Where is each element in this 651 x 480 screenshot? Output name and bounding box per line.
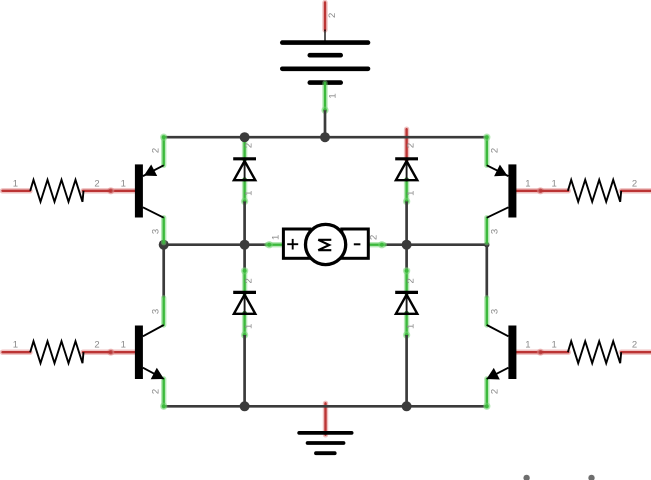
ground symbol (299, 403, 351, 453)
svg-text:3: 3 (489, 229, 500, 234)
wire D4 anode to bottom bus (405, 335, 408, 406)
node top bus / D1 junction (240, 132, 250, 142)
svg-text:1: 1 (525, 340, 530, 351)
diode D2 (upper right flyback) (395, 129, 418, 205)
svg-text:2: 2 (150, 148, 161, 153)
node left mid junction (159, 240, 169, 250)
node right mid junction (small) (484, 242, 489, 247)
wire left mid rail to D3 cathode (243, 245, 246, 271)
resistor R1 (3, 178, 111, 202)
wire bottom bus (163, 405, 489, 408)
battery V1 (282, 3, 368, 114)
diode D3 (lower left flyback) (233, 267, 256, 339)
svg-text:2: 2 (327, 13, 338, 18)
svg-text:2: 2 (150, 389, 161, 394)
transistor Q4 (NPN, bottom-right) (483, 298, 544, 410)
svg-text:2: 2 (94, 178, 99, 189)
svg-text:2: 2 (243, 278, 254, 283)
svg-text:3: 3 (150, 309, 161, 314)
wire right mid rail (381, 243, 487, 246)
svg-text:2: 2 (632, 340, 637, 351)
node top bus / battery junction (320, 132, 330, 142)
wire left mid rail (164, 243, 269, 246)
node bottom bus / D3 junction (240, 401, 250, 411)
diode D4 (lower right flyback) (395, 267, 418, 339)
wire D2 anode to right mid rail (405, 201, 408, 244)
svg-text:2: 2 (405, 143, 416, 148)
svg-text:2: 2 (243, 143, 254, 148)
svg-text:2: 2 (489, 148, 500, 153)
svg-text:1: 1 (328, 93, 339, 98)
transistor Q3 (NPN, bottom-left) (107, 298, 167, 410)
svg-text:1: 1 (243, 324, 254, 329)
svg-text:3: 3 (150, 229, 161, 234)
svg-text:1: 1 (13, 178, 18, 189)
svg-text:1: 1 (121, 178, 126, 189)
svg-text:1: 1 (243, 191, 254, 196)
wire battery pin1 to top bus (324, 110, 327, 137)
resistor R3 (3, 340, 111, 364)
svg-text:1: 1 (525, 178, 530, 189)
svg-text:1: 1 (552, 178, 557, 189)
node right mid rail / D4 junction (402, 240, 412, 250)
svg-text:1: 1 (552, 340, 557, 351)
svg-text:2: 2 (405, 278, 416, 283)
motor M1 (266, 224, 386, 264)
svg-text:2: 2 (489, 389, 500, 394)
wire Q1/Q3 collector column (162, 245, 165, 298)
transistor Q2 (PNP, top-right) (483, 134, 544, 243)
svg-text:2: 2 (632, 178, 637, 189)
resistor R2 (540, 178, 651, 202)
wire Q2/Q4 collector column (485, 245, 488, 298)
svg-text:2: 2 (369, 235, 380, 240)
svg-text:1: 1 (271, 235, 282, 240)
svg-text:1: 1 (121, 340, 126, 351)
node left mid rail / D3 junction (240, 240, 250, 250)
wire top bus (163, 136, 489, 139)
wire D3 anode to bottom bus (243, 335, 246, 406)
diode D1 (upper left flyback) (233, 137, 256, 205)
node (clipped marker, bottom edge left) (523, 475, 529, 480)
wire D1 anode to left mid rail (243, 201, 246, 244)
transistor Q1 (PNP, top-left) (107, 134, 167, 243)
svg-text:1: 1 (405, 324, 416, 329)
svg-text:1: 1 (405, 191, 416, 196)
svg-text:1: 1 (13, 340, 18, 351)
resistor R4 (540, 340, 651, 364)
node bottom bus / D4 junction (402, 401, 412, 411)
svg-text:3: 3 (489, 309, 500, 314)
svg-text:2: 2 (94, 340, 99, 351)
node (clipped marker, bottom edge right) (588, 475, 594, 480)
wire right mid rail to D4 cathode (405, 245, 408, 271)
